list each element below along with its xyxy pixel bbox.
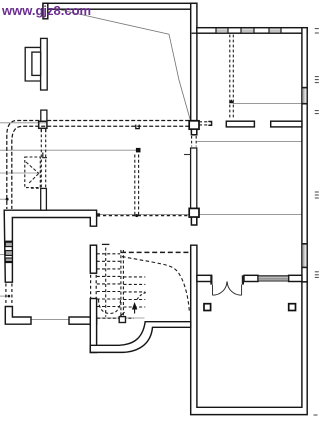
door frame tab right: [242, 275, 244, 284]
interior wall segment A: [226, 121, 254, 127]
right outer wall: [302, 28, 307, 282]
walk hook: [137, 293, 146, 300]
dim line right upper: [233, 102, 302, 104]
stair west wall upper: [90, 245, 96, 273]
left outer wall lower + bottom bar L: [5, 307, 31, 325]
chimney tall rect: [41, 38, 48, 90]
wire c1: [7, 121, 189, 210]
stub symbol 2: [41, 188, 47, 210]
edge ticks: [314, 29, 319, 415]
top wall windows: [216, 28, 281, 34]
top wall: [43, 3, 197, 9]
stair base line: [97, 317, 145, 319]
dim line mid right: [197, 140, 302, 142]
stub dashed pair: [41, 130, 45, 189]
big left wall + end stub + left outer wall upper: [4, 210, 96, 282]
lamp tick c6: [229, 99, 234, 103]
direction arrow: [132, 302, 137, 310]
svg-text:www.gjz8.com: www.gjz8.com: [1, 3, 91, 18]
walk line cap: [102, 243, 110, 245]
dim line left upper: [0, 122, 47, 124]
curved stair bay wall: [90, 322, 190, 353]
dim line left lower: [0, 295, 9, 297]
stair wall dashed opening: [91, 275, 97, 299]
stub symbol 1: [41, 110, 47, 121]
tall wall below top-right corner: [191, 3, 197, 120]
left wall window blocks: [5, 242, 12, 261]
chimney C outline: [25, 47, 40, 81]
walk line left: [105, 248, 107, 317]
wire c3: [199, 122, 211, 125]
interior wall door tab: [208, 121, 211, 125]
wire c8 stair switch leg: [122, 257, 189, 311]
stub joint elbow: [43, 153, 47, 158]
arrow stem: [134, 310, 136, 314]
wire c4 lamp drop: [135, 155, 139, 216]
right wall window 1: [302, 87, 307, 104]
top wall left cap: [43, 3, 48, 18]
double door leaves: [213, 282, 242, 296]
shaft dashed pair: [192, 136, 197, 147]
left wall dashed opening: [6, 284, 12, 306]
door wall bar 3: [289, 275, 302, 281]
shaft solid riser: [191, 148, 197, 209]
wire c6 pair: [230, 35, 234, 119]
bottom wall right bar: [69, 317, 97, 324]
interior wall segment B: [271, 121, 302, 127]
junction dot B: [8, 295, 11, 298]
column left: [204, 304, 211, 311]
stair rail pair: [121, 250, 124, 321]
column right: [289, 304, 296, 311]
balcony door window: [258, 275, 289, 281]
wire hook symbol: [136, 125, 139, 129]
leader line: [61, 10, 190, 120]
chimney inner rect: [32, 52, 41, 75]
thin reference lines: [0, 103, 307, 319]
dim line left mid: [0, 172, 41, 174]
switch box flag: [120, 312, 125, 316]
dim line to lamp: [0, 149, 136, 151]
riser tick: [184, 154, 191, 156]
walk u-turn: [99, 300, 121, 314]
distribution box 1: [189, 121, 199, 129]
stair west wall lower: [90, 299, 96, 353]
dim line left window: [0, 254, 5, 256]
door frame tab left: [210, 275, 212, 284]
wall tab at big wall end: [97, 213, 101, 216]
door threshold line: [31, 319, 69, 321]
dashed branch: [31, 187, 40, 189]
distribution box 2: [189, 208, 199, 217]
left window end caps: [5, 240, 12, 242]
long dim line middle: [100, 214, 307, 216]
ceiling lamp square: [136, 148, 141, 153]
corner joint line: [192, 32, 197, 34]
door wall bar 1: [197, 275, 212, 281]
bottom room left+bottom+right walls: [191, 245, 308, 414]
bottom dash row: [92, 317, 134, 319]
wire c2: [12, 126, 189, 209]
wire c4 junction blob: [135, 214, 138, 217]
meter symbol dashed box: [25, 157, 41, 188]
wire c7 stair feed: [121, 251, 190, 253]
stair treads right: [124, 277, 146, 307]
meter symbol arrows: [26, 162, 39, 183]
top-right room top wall: [197, 28, 307, 34]
door wall bar 2: [244, 275, 258, 281]
right wall window 2: [302, 243, 307, 268]
dim line to dot: [0, 198, 7, 200]
stair treads left: [97, 254, 120, 307]
junction dot A: [6, 198, 9, 201]
wire c5: [103, 215, 189, 217]
